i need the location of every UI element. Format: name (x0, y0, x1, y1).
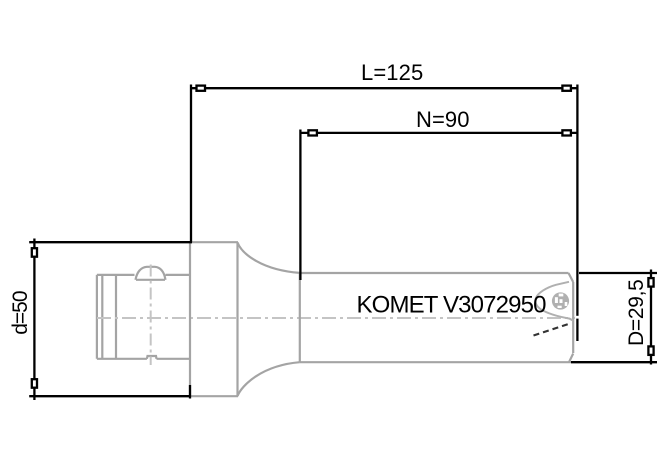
taper start vertical line (236, 242, 238, 396)
dimension N=90 line (300, 132, 577, 134)
dimension D=29,5 line (650, 270, 652, 365)
dimension N=90 right arrow (562, 130, 571, 135)
tool shank flat top edge left (97, 274, 135, 276)
dimension L=125 right extension line (576, 85, 578, 342)
L extension lower stub (189, 385, 191, 399)
dimension d=50 line (33, 239, 35, 401)
shank bottom edge gray segment (189, 395, 238, 397)
body bottom edge (300, 361, 571, 363)
shank flat inner line 1 (101, 275, 103, 359)
shank set-screw dome chord (136, 279, 165, 281)
dimension D=29,5 bottom extension line (571, 361, 657, 363)
svg-text:L=125: L=125 (361, 60, 423, 85)
tip face (572, 282, 574, 353)
taper bottom curve (238, 362, 300, 396)
dimension d=50 bottom extension line (29, 395, 190, 397)
dimension d=50 top arrow (32, 248, 37, 257)
dimension d=50 top extension line (29, 241, 192, 243)
tip bottom chamfer (569, 354, 573, 363)
tool shank flat bottom edge left (97, 358, 147, 360)
extension line centerline gap (576, 316, 579, 319)
svg-text:d=50: d=50 (9, 291, 32, 335)
dimension d=50 bottom arrow (32, 379, 37, 388)
insert screw (552, 292, 569, 309)
taper top curve (238, 243, 300, 273)
svg-text:KOMET V3072950: KOMET V3072950 (357, 292, 547, 319)
shank set-screw dome arc (136, 267, 166, 280)
tool shank flat top edge right (166, 274, 192, 276)
dimension N=90 left arrow (308, 130, 317, 135)
tool shank flat bottom edge right (157, 358, 192, 360)
dimension N=90 left extension line (299, 130, 301, 281)
dimension D=29,5 bottom arrow (648, 346, 653, 355)
taper-body boundary vertical line (299, 273, 301, 362)
shank flat inner line 2 (115, 275, 117, 359)
tool horizontal centerline (97, 317, 575, 319)
cutting edge dashed line (534, 323, 572, 336)
dimension L=125 line (191, 87, 577, 89)
dimension D=29,5 top arrow (648, 278, 653, 287)
shank top edge gray segment (190, 241, 238, 243)
collar boundary vertical line (189, 242, 191, 396)
insert outline (535, 282, 573, 321)
tool shank flat left edge (96, 275, 98, 359)
svg-text:D=29,5: D=29,5 (625, 279, 648, 346)
dimension D=29,5 top extension line (579, 272, 657, 274)
dimension L=125 left extension line (190, 85, 192, 243)
tip top chamfer (569, 273, 574, 282)
svg-text:N=90: N=90 (416, 107, 470, 132)
dimension L=125 right arrow (562, 86, 571, 91)
body top edge (300, 272, 569, 274)
shank bottom notch (147, 356, 157, 359)
dimension L=125 left arrow (197, 86, 206, 91)
shank vertical centerline (150, 265, 152, 366)
